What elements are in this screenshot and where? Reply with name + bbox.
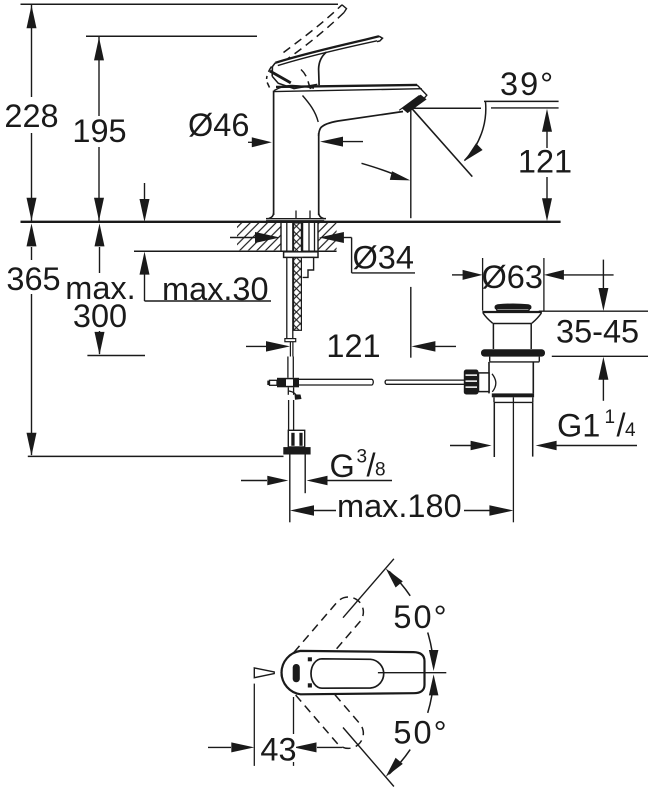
svg-text:50°: 50°	[393, 715, 448, 751]
spout outlet projection line upper	[410, 108, 412, 218]
svg-text:4: 4	[625, 420, 636, 441]
pop-up rod	[288, 357, 293, 378]
raised lever neck dashed	[301, 70, 311, 90]
drain rubber washer	[481, 349, 545, 356]
35-45 top reference line	[539, 310, 648, 312]
rod lower section	[289, 400, 294, 430]
drain collar	[490, 357, 540, 362]
mounting flange	[284, 252, 318, 258]
handle dot top	[308, 657, 312, 661]
svg-text:121: 121	[518, 143, 572, 179]
39 degree arc	[464, 102, 486, 161]
svg-text:300: 300	[73, 298, 127, 334]
handle inner contour	[311, 659, 384, 688]
drain ring	[494, 397, 533, 402]
supply tube left	[287, 223, 293, 339]
max.300 bottom reference line	[87, 355, 145, 357]
dimension max.30 arrows	[140, 183, 272, 307]
svg-text:50°: 50°	[393, 599, 448, 635]
flow line	[412, 108, 473, 176]
drain tee body	[489, 362, 533, 394]
svg-text:G1: G1	[557, 407, 600, 443]
faucet base plate	[266, 219, 324, 221]
lever tip	[377, 36, 383, 41]
raised lever top edge dashed	[284, 5, 343, 53]
projection leader arrow	[362, 163, 411, 180]
svg-text:228: 228	[4, 98, 58, 134]
rod coupling block	[277, 378, 299, 388]
dimension 365 vertical line	[6, 223, 60, 455]
svg-text:35-45: 35-45	[556, 313, 639, 349]
linkage rod segment 2	[385, 380, 464, 384]
lower rotation diagonal	[343, 728, 394, 787]
drain plug cap	[495, 304, 531, 310]
drain neck	[493, 324, 531, 350]
upper 50 degree arc	[386, 568, 439, 671]
121 right reference line	[491, 107, 559, 109]
svg-text:max.180: max.180	[337, 488, 462, 524]
faucet base flare right	[319, 213, 326, 219]
mounting hole wall right	[317, 223, 319, 251]
drain tailpipe	[494, 402, 532, 457]
dimension 121 projection	[246, 328, 456, 364]
countertop hatch right	[318, 223, 336, 250]
lever grip front	[272, 63, 275, 77]
dimension Ø46	[188, 107, 363, 147]
handle pivot slot	[293, 664, 300, 682]
handle top view outline	[282, 651, 425, 694]
drain tee bottom	[492, 393, 534, 397]
svg-text:Ø63: Ø63	[482, 259, 543, 295]
G3/8 connection nut	[283, 447, 310, 454]
G3/8 label	[241, 447, 392, 486]
39 degree reference line	[484, 100, 559, 102]
faucet body right edge	[318, 133, 320, 215]
365 bottom reference line	[28, 455, 284, 457]
svg-text:Ø34: Ø34	[353, 239, 414, 275]
countertop surface line	[21, 221, 561, 223]
lower 50 degree arc	[386, 674, 439, 777]
countertop hatch left	[237, 223, 281, 250]
pop-up rod upper link	[290, 342, 293, 357]
linkage rod segment 1	[299, 379, 373, 385]
dimension 228 vertical line	[4, 5, 58, 221]
drain rim	[482, 311, 542, 313]
lever neck curve	[319, 52, 327, 85]
39 degree label	[500, 66, 555, 102]
second hose in hole	[303, 223, 309, 251]
pull rod stub	[254, 668, 274, 678]
svg-text:195: 195	[72, 113, 126, 149]
supply tube end cap	[285, 339, 296, 342]
dimension 121 height	[518, 109, 572, 221]
lowered handle outline -50 dashed	[275, 652, 369, 755]
G1 1/4 label	[450, 407, 637, 450]
shank lines above base	[296, 211, 310, 219]
svg-text:3: 3	[357, 447, 368, 468]
raised lever tip dashed	[342, 5, 347, 13]
braided hose	[294, 223, 302, 330]
dimension Ø34 right arrow leader	[319, 232, 415, 275]
svg-text:43: 43	[260, 732, 296, 768]
35-45 bottom reference line	[552, 355, 648, 357]
supply pipe below nut	[290, 455, 305, 523]
svg-text:max.30: max.30	[162, 271, 269, 307]
upper rotation diagonal	[343, 559, 394, 618]
reference line 195	[86, 35, 257, 37]
outlet level line	[412, 107, 481, 109]
lever blade top edge	[275, 36, 379, 63]
dimension Ø63	[452, 258, 614, 311]
lever grip underside	[270, 71, 291, 83]
svg-text:121: 121	[326, 328, 380, 364]
top reference line 228	[21, 3, 339, 5]
handle axis line	[378, 672, 446, 674]
raised handle outline +50 dashed	[275, 591, 369, 694]
svg-text:1: 1	[605, 407, 616, 428]
upper 50 degree label	[393, 599, 448, 635]
dimension 35-45	[556, 260, 639, 401]
drain axis extension line	[512, 397, 514, 522]
faucet body left edge	[273, 91, 275, 215]
raised lever grip dashed	[267, 67, 272, 88]
shank wall line	[314, 223, 316, 251]
hose connector body	[288, 430, 304, 447]
hose stub step1	[303, 257, 314, 277]
handle dot bottom	[308, 683, 312, 687]
body dome	[274, 85, 314, 90]
svg-text:39°: 39°	[500, 66, 555, 102]
spout aerator	[399, 95, 426, 114]
spout top plate	[274, 85, 427, 101]
countertop bottom line	[134, 250, 337, 252]
drain taper	[483, 313, 541, 324]
svg-text:365: 365	[6, 261, 60, 297]
coupling left stub	[267, 380, 277, 385]
dimension Ø34 left arrow	[230, 232, 280, 243]
spout underside	[319, 112, 403, 137]
raised lever underside dashed	[288, 13, 344, 59]
lever base	[272, 76, 317, 88]
lever inner line	[278, 41, 377, 66]
faucet body inner curve	[303, 96, 319, 123]
rod hook detail	[289, 391, 302, 400]
drain knob collar	[479, 373, 490, 392]
svg-text:8: 8	[375, 460, 386, 481]
faucet base flare left	[266, 213, 273, 219]
svg-text:G: G	[330, 448, 355, 484]
dimension max.180	[290, 488, 513, 524]
dimension 195 vertical line	[72, 37, 126, 221]
drain knob	[464, 370, 479, 395]
spout outlet projection line lower	[410, 287, 412, 358]
lower 50 degree label	[393, 715, 448, 751]
rod below coupling	[288, 387, 293, 395]
svg-text:Ø46: Ø46	[188, 107, 249, 143]
dimension 43	[208, 684, 342, 768]
mounting hole wall left	[280, 223, 282, 251]
dimension max.300 vertical line	[65, 223, 135, 355]
